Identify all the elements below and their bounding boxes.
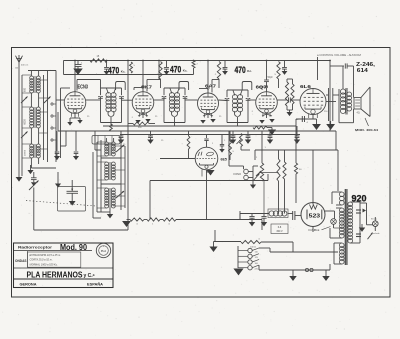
svg-text:ONDAS: ONDAS [15,259,27,263]
svg-text:PLA: PLA [101,249,106,253]
svg-text:GERONA: GERONA [20,283,37,287]
svg-text:EXTRACORTA 16,5 a 25 m.: EXTRACORTA 16,5 a 25 m. [30,254,62,257]
svg-text:NORMAL 1900 a 525 Kc.: NORMAL 1900 a 525 Kc. [30,264,58,267]
svg-text:ESPAÑA: ESPAÑA [87,282,103,287]
svg-text:•: • [103,246,104,249]
svg-text:Radiorreceptor: Radiorreceptor [18,246,53,250]
svg-text:CORTA 25,5 a 52 m.: CORTA 25,5 a 52 m. [30,258,53,261]
svg-text:y C.ᵃ: y C.ᵃ [84,273,95,279]
svg-text:Mod. 90: Mod. 90 [60,243,87,252]
svg-text:PLA HERMANOS: PLA HERMANOS [27,271,83,280]
